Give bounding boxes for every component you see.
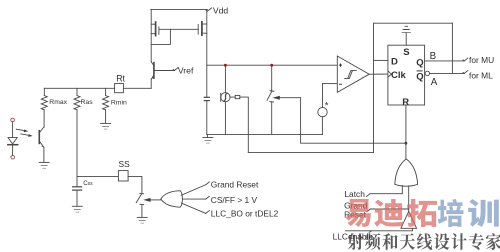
svg-text:Ras: Ras: [81, 99, 94, 106]
svg-text:Latch: Latch: [344, 189, 365, 199]
watermark char 家: [486, 233, 500, 250]
wire comparator minus input: [323, 83, 338, 85]
text labels: [178, 6, 229, 76]
svg-text:Rmin: Rmin: [111, 99, 127, 106]
ground below Css: [72, 206, 82, 212]
Vdd net flag: [206, 8, 212, 11]
wire M3 control to Qbar bus: [240, 97, 249, 152]
wire M3 below to ground bus: [224, 102, 226, 135]
or-gate G1 (3-input, points left): [161, 191, 183, 208]
optocoupler light arrows: [16, 129, 32, 137]
switch S2 top wire: [271, 65, 273, 91]
wire terminal to LED: [12, 122, 14, 138]
watermark char 迪: [374, 199, 404, 227]
svg-text:D: D: [391, 56, 398, 67]
wire Qbar output (node A): [430, 72, 465, 74]
svg-text:B: B: [430, 51, 437, 62]
wire gate-drain tap of M1: [151, 29, 170, 44]
wire R stem: [405, 105, 407, 159]
component SS (box): [118, 171, 128, 181]
resistor Ras: [74, 88, 80, 110]
comparator U1: [337, 56, 369, 92]
watermark char 设: [434, 233, 449, 250]
wire LLCenable to buffer: [346, 228, 413, 231]
svg-text:Vref: Vref: [178, 66, 194, 76]
or-gate G1 output arrow to S1: [143, 198, 161, 202]
watermark char 和: [382, 233, 397, 250]
svg-text:LLC_BO or tDEL2: LLC_BO or tDEL2: [211, 208, 279, 218]
capacitor Css: [73, 176, 82, 206]
watermark char 训: [468, 199, 499, 227]
G1 input wire LLC_BO: [181, 203, 209, 213]
wire gate bus M1-M2: [159, 28, 198, 30]
junction node R: [405, 142, 408, 145]
svg-text:for ML: for ML: [469, 71, 493, 81]
watermark char 天: [400, 233, 415, 250]
svg-text:Q: Q: [416, 72, 423, 83]
for MU net flag: [463, 58, 468, 61]
or-gate G2 (points up): [395, 159, 418, 186]
svg-text:R: R: [402, 97, 409, 108]
Latch net wire: [367, 194, 403, 197]
phototransistor Q2: [39, 127, 44, 148]
switch S1 blade: [136, 193, 144, 202]
svg-text:for MU: for MU: [469, 55, 494, 65]
LED D1: [8, 138, 18, 145]
watermark char 线: [417, 233, 432, 250]
mos M3 (circled device): [221, 93, 240, 102]
resistor Rmax: [41, 88, 47, 110]
pmos M2: [198, 22, 207, 35]
wire M1 source/drain vertical: [150, 9, 152, 61]
G1 input wire CS/FF: [183, 196, 210, 199]
pin label Qbar overline: [417, 70, 423, 72]
resistor Rmin: [103, 88, 109, 123]
watermark char 频: [365, 233, 380, 250]
wire comparator plus bus: [207, 64, 337, 66]
wire Q2 emitter to ground: [43, 147, 45, 162]
svg-text:Vdd: Vdd: [213, 6, 229, 16]
svg-text:Rt: Rt: [116, 74, 125, 84]
svg-text:Clk: Clk: [391, 70, 407, 81]
wire ground bus: [207, 133, 322, 135]
U2 Clk chevron: [388, 71, 392, 77]
ground below Q2: [39, 162, 49, 168]
wire G2 input from Latch: [401, 186, 403, 194]
resistor Rt (box): [115, 84, 124, 93]
wire comparator output to Clk: [369, 73, 388, 75]
S2 control arrow: [272, 96, 300, 100]
watermark char 拓: [407, 199, 437, 227]
svg-text:S: S: [403, 47, 409, 58]
ground on bus: [203, 134, 213, 143]
watermark char 计: [451, 233, 466, 250]
wire control to R net: [301, 98, 406, 144]
inverted ground on S input: [402, 26, 411, 45]
optocoupler bottom terminal: [11, 155, 15, 159]
wire LED to bottom terminal: [12, 145, 14, 155]
wire plus bus down to M3: [224, 65, 226, 93]
wire SS box to switch S1: [128, 176, 142, 193]
svg-text:Grand Reset: Grand Reset: [211, 180, 259, 190]
G1 input wire Grand Reset: [181, 182, 209, 195]
wire S2 bottom: [270, 102, 274, 135]
ground below Rmin: [101, 123, 111, 129]
svg-text:LLCenable: LLCenable: [333, 232, 374, 242]
capacitor C1 on drain node: [204, 97, 209, 134]
LLCenable tick: [368, 231, 371, 234]
npn Q1: [151, 62, 174, 80]
svg-text:CS/FF > 1 V: CS/FF > 1 V: [211, 195, 258, 205]
wire Css node to SS box: [77, 175, 118, 177]
wire Q1 emitter down: [150, 79, 152, 88]
junction node: [224, 64, 227, 67]
flip-flop pin labels: [391, 47, 424, 108]
wire M2 drain down to comparator node: [206, 9, 208, 97]
watermark char 易: [345, 199, 371, 227]
svg-text:*: *: [325, 100, 329, 110]
wire Rt to emitter: [123, 87, 151, 89]
svg-text:Rmax: Rmax: [49, 99, 67, 106]
comparator minus: [339, 83, 342, 85]
Grand Reset net wire: [367, 209, 409, 212]
wire G2 input from Grand Reset / buffer: [408, 186, 410, 211]
wire Vdd rail: [151, 8, 208, 10]
pmos M1 (diode-connected, mirrored): [151, 22, 159, 35]
watermark char 射: [348, 233, 363, 250]
Qbar bubble: [425, 71, 429, 75]
wire Ras down to Css node: [76, 110, 78, 177]
svg-text:SS: SS: [119, 159, 131, 169]
svg-text:Q: Q: [416, 58, 423, 69]
watermark char 专: [469, 233, 484, 250]
junction node: [270, 64, 273, 67]
switch S2 blade: [267, 91, 274, 101]
Vref net flag: [173, 67, 178, 70]
wire Rmax down to Q2 collector: [43, 110, 45, 127]
wire resistor bus: [44, 87, 114, 89]
flip-flop U2 box: [388, 45, 425, 105]
wire Qbar feedback bus: [248, 151, 373, 153]
wire Q output (node B): [425, 60, 465, 62]
svg-text:A: A: [431, 77, 438, 88]
for ML net flag: [463, 71, 468, 74]
ground below S1: [137, 217, 147, 223]
current source I1: [318, 84, 327, 135]
watermark char 培: [438, 199, 464, 227]
optocoupler top terminal: [11, 118, 15, 122]
buffer U3: [401, 211, 417, 228]
wire S1 bottom to ground: [140, 204, 144, 217]
comparator plus: [339, 64, 342, 67]
wire D = Qbar feedback loop: [374, 23, 453, 152]
svg-text:Css: Css: [83, 180, 93, 187]
